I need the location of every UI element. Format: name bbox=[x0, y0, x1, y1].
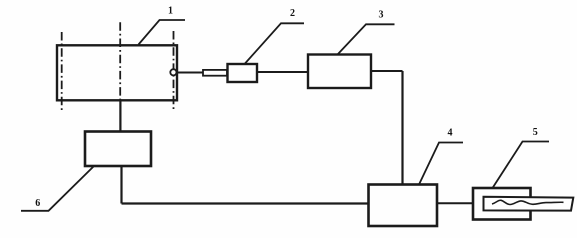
svg-text:5: 5 bbox=[533, 127, 538, 138]
output aperture circle bbox=[170, 69, 176, 75]
wire box1 to attenuator bbox=[177, 72, 203, 74]
wire box1 down to box 6 bbox=[119, 101, 121, 132]
leader line 6 bbox=[21, 167, 94, 211]
wire down to box 4 bbox=[401, 71, 403, 185]
recorded wavy trace bbox=[492, 200, 564, 204]
laser tube box 1 bbox=[57, 45, 177, 100]
mirror centerline right (dash-dot) bbox=[173, 31, 175, 112]
wire box6 down bbox=[120, 166, 122, 204]
leader line 5 bbox=[493, 142, 550, 189]
svg-text:6: 6 bbox=[35, 198, 40, 209]
recorder box 5 bbox=[473, 188, 531, 220]
mirror centerline middle (dash-dot) bbox=[119, 22, 121, 100]
long bottom wire to box 4 bbox=[122, 202, 369, 204]
svg-text:4: 4 bbox=[448, 128, 453, 139]
svg-text:2: 2 bbox=[290, 8, 295, 19]
leader line 1 bbox=[139, 20, 186, 45]
svg-text:3: 3 bbox=[379, 10, 384, 21]
mirror centerline left (dash-dot) bbox=[61, 32, 63, 112]
svg-text:1: 1 bbox=[168, 6, 173, 17]
processing box 4 bbox=[369, 185, 438, 227]
amplifier box 3 bbox=[308, 55, 371, 89]
attenuator stub bar 2 bbox=[203, 70, 227, 76]
recorder chart paper bbox=[484, 197, 574, 211]
detector head box 2 bbox=[228, 64, 258, 82]
wire box4 to recorder 5 bbox=[437, 202, 473, 204]
leader line 3 bbox=[338, 24, 395, 54]
power supply box 6 bbox=[85, 132, 151, 167]
leader line 2 bbox=[245, 23, 304, 63]
leader line 4 bbox=[419, 143, 463, 185]
wire box2 to box3 bbox=[257, 71, 308, 73]
wire box3 right bbox=[371, 70, 403, 72]
